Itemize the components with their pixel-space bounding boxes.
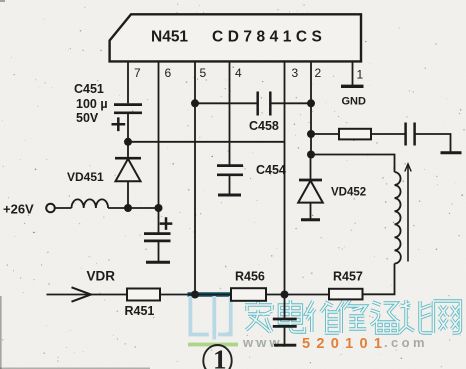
svg-text:VD451: VD451 [67,170,104,184]
svg-text:www.: www. [242,335,289,350]
svg-text:2: 2 [315,66,322,80]
svg-text:.com: .com [384,335,428,350]
svg-text:R456: R456 [235,270,265,284]
svg-text:R457: R457 [333,270,363,284]
svg-text:6: 6 [165,66,172,80]
svg-text:R451: R451 [125,304,155,318]
svg-text:GND: GND [342,96,367,108]
svg-text:+26V: +26V [3,202,34,217]
svg-text:C454: C454 [256,163,286,177]
svg-text:N451: N451 [151,29,188,46]
svg-text:50V: 50V [76,111,99,125]
svg-text:1: 1 [357,68,364,82]
svg-text:C458: C458 [249,119,279,133]
svg-text:1: 1 [213,345,227,369]
svg-text:VD452: VD452 [331,187,366,199]
svg-text:7: 7 [134,66,141,80]
svg-text:3: 3 [292,66,299,80]
svg-text:CD7841CS: CD7841CS [212,29,326,46]
svg-text:4: 4 [235,66,242,80]
svg-text:C451: C451 [74,82,104,96]
svg-text:5: 5 [200,66,207,80]
svg-text:100 µ: 100 µ [76,97,108,111]
svg-text:520101: 520101 [302,336,388,352]
svg-text:VDR: VDR [87,269,116,284]
